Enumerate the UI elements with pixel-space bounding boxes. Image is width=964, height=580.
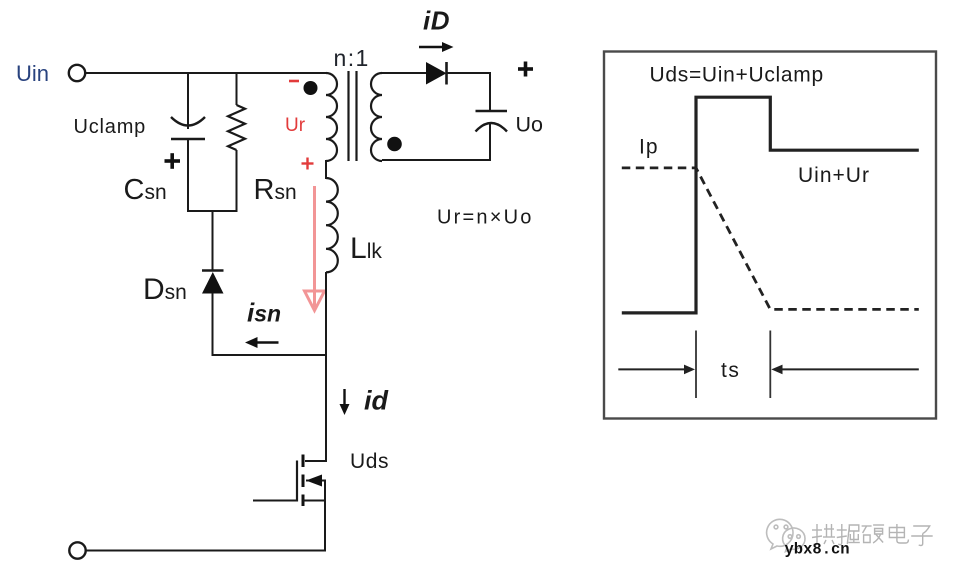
watermark glyph zi3: [911, 526, 933, 546]
svg-text:n:1: n:1: [334, 45, 370, 71]
current arrow iD: [419, 42, 454, 52]
transformer core lines: [349, 71, 357, 161]
transformer primary dot: [304, 81, 318, 95]
transistor Q1 drain bend: [305, 460, 326, 462]
resistor Rsn: [228, 105, 245, 150]
watermark logo bubbles: [767, 519, 805, 551]
capacitor Csn straight plate: [171, 138, 205, 141]
transistor Q1 channel dashes: [302, 455, 305, 507]
current arrow through Llk (pink): [305, 186, 325, 311]
watermark glyph dian4: [889, 524, 908, 543]
tick t1: [695, 331, 697, 399]
waveform Ip dashed trace: [622, 168, 919, 310]
wire: diode to output node: [447, 72, 492, 74]
svg-text:Ur: Ur: [285, 115, 306, 136]
wire: Csn bottom branch: [187, 139, 189, 212]
transformer primary winding: [326, 73, 337, 161]
transformer secondary winding: [371, 73, 382, 161]
transistor Q1 source bar: [303, 500, 326, 502]
arrow left of ts: [618, 365, 695, 375]
diode Dsn cathode bar: [202, 269, 224, 272]
arrow right of ts: [771, 365, 919, 375]
transistor Q1 body arrow: [306, 475, 326, 487]
watermark glyph gong1: [812, 524, 835, 545]
svg-text:iD: iD: [423, 6, 450, 36]
wire: Rsn top branch: [236, 73, 238, 105]
wire: secondary bottom rail: [382, 159, 491, 161]
wire: Llk to drain: [325, 272, 327, 462]
polarity plus of Uo: [518, 62, 533, 77]
terminal Uin circle: [69, 65, 85, 81]
diode D triangle: [426, 62, 447, 85]
waveform Uds solid trace: [622, 97, 919, 313]
polarity plus of Csn: [165, 153, 181, 169]
transistor Q1 gate lead: [253, 500, 297, 502]
capacitor Csn curved plate: [171, 117, 205, 126]
wire: Csn top branch: [187, 73, 189, 129]
tick t2: [769, 331, 771, 399]
svg-text:Uclamp: Uclamp: [74, 116, 147, 138]
wire: source down to bottom rail: [324, 481, 326, 552]
wire: snubber bottom junction bar: [187, 210, 238, 212]
svg-text:isn: isn: [247, 298, 281, 328]
waveform box frame: [604, 52, 936, 419]
wire: output cap top lead: [489, 72, 491, 111]
capacitor Uo curved plate: [476, 123, 508, 132]
wire: output cap bottom lead: [489, 124, 491, 161]
wire: Dsn bottom lead: [212, 293, 214, 356]
diode D cathode bar: [445, 62, 448, 85]
wire: bottom rail: [86, 550, 326, 552]
watermark glyph ying4: [862, 525, 885, 543]
svg-text:Uin+Ur: Uin+Ur: [798, 164, 870, 187]
svg-text:ybx8.cn: ybx8.cn: [785, 541, 850, 559]
diode Dsn triangle: [202, 272, 224, 294]
watermark glyph jue2: [837, 524, 860, 545]
diode D anode wire: [382, 72, 427, 74]
svg-text:Ip: Ip: [639, 136, 659, 159]
svg-text:Uds: Uds: [350, 450, 389, 473]
svg-text:Uo: Uo: [516, 113, 544, 137]
inductor Llk: [326, 178, 338, 272]
transistor Q1 gate plate: [296, 461, 298, 502]
svg-text:ts: ts: [721, 359, 740, 382]
wire: Rsn bottom branch: [236, 150, 238, 212]
svg-text:id: id: [364, 386, 389, 416]
svg-text:Uds=Uin+Uclamp: Uds=Uin+Uclamp: [650, 64, 824, 87]
capacitor Uo straight plate: [476, 110, 508, 113]
svg-text:Ur=n×Uo: Ur=n×Uo: [437, 207, 534, 229]
wire: between primary and Llk: [325, 160, 327, 179]
current arrow id: [340, 389, 350, 415]
transformer secondary dot: [387, 137, 402, 152]
svg-text:Uin: Uin: [16, 61, 49, 86]
current arrow isn: [245, 337, 279, 348]
wire: top rail: [86, 72, 327, 74]
wire: Dsn top lead: [212, 211, 214, 271]
label minus of Ur (red): [289, 80, 299, 83]
terminal bottom circle: [69, 542, 85, 558]
label plus of Ur (red): [302, 158, 314, 170]
wire: isn horizontal return: [212, 354, 327, 356]
